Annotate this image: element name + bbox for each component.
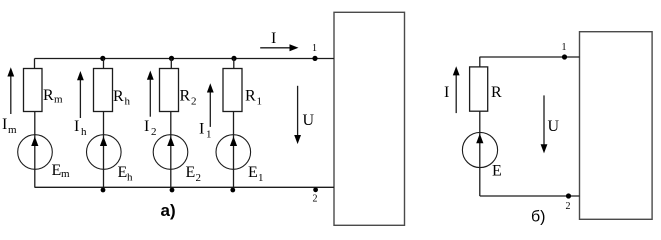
svg-text:h: h	[81, 126, 87, 138]
svg-text:2: 2	[566, 201, 571, 212]
wire top b)	[480, 56, 580, 58]
svg-text:I: I	[199, 121, 204, 138]
svg-text:1: 1	[562, 42, 567, 53]
svg-text:1: 1	[257, 96, 263, 108]
wire R2 to E2	[170, 112, 172, 136]
node 2 b)	[566, 193, 571, 198]
svg-text:R: R	[43, 87, 54, 104]
node junction bottom 2	[170, 188, 175, 193]
resistor Rm	[24, 69, 43, 112]
svg-text:m: m	[54, 94, 63, 106]
node 1 b)	[562, 54, 567, 59]
resistor R2	[160, 69, 179, 112]
resistor R	[470, 67, 488, 111]
svg-text:R: R	[113, 88, 124, 105]
emf source E2	[153, 135, 188, 170]
wire branch h vertical	[103, 59, 105, 70]
svg-text:I: I	[2, 116, 7, 133]
emf source E	[462, 132, 497, 167]
svg-text:2: 2	[191, 96, 197, 108]
current arrow Im	[10, 74, 12, 114]
svg-text:R: R	[491, 84, 502, 101]
wire bottom b)	[480, 195, 580, 197]
svg-text:I: I	[144, 118, 149, 135]
node junction bottom 1	[230, 188, 235, 193]
svg-text:E: E	[118, 164, 128, 181]
svg-text:I: I	[444, 84, 449, 101]
resistor R1	[223, 69, 242, 112]
svg-text:а): а)	[161, 201, 176, 220]
current arrow I total	[260, 47, 291, 49]
wire bottom rail a)	[35, 186, 335, 188]
svg-text:h: h	[127, 172, 133, 184]
load box a)	[334, 12, 405, 225]
node 1 a)	[312, 56, 317, 61]
wire branch m vertical	[34, 59, 36, 70]
wire E1 to bottom rail	[233, 169, 235, 187]
wire branch b top	[479, 57, 481, 67]
current arrow I1	[209, 90, 211, 127]
svg-text:I: I	[74, 118, 79, 135]
svg-text:R: R	[180, 88, 191, 105]
wire R1 to E1	[233, 112, 235, 136]
svg-text:2: 2	[313, 194, 318, 205]
wire E2 to bottom rail	[170, 169, 172, 187]
svg-text:m: m	[8, 124, 17, 136]
svg-text:E: E	[52, 162, 62, 179]
svg-text:1: 1	[206, 129, 212, 141]
node junction top 1	[231, 56, 236, 61]
node junction top h	[100, 56, 105, 61]
svg-text:2: 2	[151, 126, 157, 138]
wire Rh to Eh	[103, 112, 105, 136]
svg-text:I: I	[271, 30, 276, 47]
current arrow I2	[149, 77, 151, 117]
svg-text:1: 1	[312, 43, 317, 54]
svg-text:E: E	[492, 163, 502, 180]
emf source E1	[216, 135, 251, 170]
wire branch 1 vertical	[233, 59, 235, 70]
svg-text:б): б)	[531, 209, 546, 226]
svg-text:m: m	[61, 168, 70, 180]
svg-text:E: E	[248, 164, 258, 181]
wire Rm to Em	[34, 112, 36, 136]
wire top rail a)	[35, 58, 335, 60]
svg-text:U: U	[548, 118, 560, 135]
resistor Rh	[94, 69, 113, 112]
emf source Em	[18, 135, 53, 170]
node junction top 2	[169, 56, 174, 61]
svg-text:2: 2	[196, 172, 202, 184]
svg-text:U: U	[303, 112, 315, 129]
svg-text:R: R	[245, 88, 256, 105]
voltage arrow U b)	[543, 95, 545, 146]
svg-text:1: 1	[258, 172, 264, 184]
svg-text:h: h	[125, 96, 131, 108]
node 2 a)	[313, 187, 318, 192]
wire E to bottom	[479, 168, 481, 196]
node junction bottom h	[101, 188, 106, 193]
wire branch 2 vertical	[170, 59, 172, 70]
emf source Eh	[87, 135, 122, 170]
wire Em to bottom rail	[34, 169, 36, 187]
current arrow Ih	[79, 78, 81, 119]
current arrow I b)	[455, 73, 457, 113]
load box b)	[580, 32, 653, 220]
wire Eh to bottom rail	[103, 169, 105, 187]
voltage arrow U a)	[297, 86, 299, 138]
svg-text:E: E	[186, 164, 196, 181]
wire R to E	[479, 111, 481, 133]
